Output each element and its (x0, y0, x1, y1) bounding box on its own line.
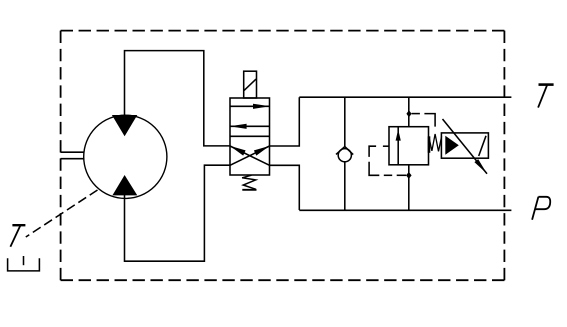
valve lower position: crossed flow path (arrow up-right) (230, 146, 270, 165)
relief valve RV1 internal flow arrow (up) (396, 127, 401, 165)
valve pilot actuator diagonal (244, 79, 256, 90)
pilot line (dashed) from upper junction to spring side (412, 114, 436, 127)
relief valve RV1 body (389, 127, 429, 165)
check valve CV1 ball (338, 149, 351, 162)
wire: T rail (299, 96, 511, 98)
drain line (dashed) from pump case to tank (26, 190, 98, 237)
check valve CV1 upper lead (344, 97, 346, 147)
valve position divider (230, 135, 270, 137)
valve return spring (242, 175, 256, 190)
junction diamond (lower) (406, 172, 412, 179)
tank inlet stub (23, 256, 25, 265)
wire: P rail (299, 209, 511, 211)
relief valve spring seat (428, 136, 431, 153)
wire: pump bottom port to valve left lower port (125, 165, 231, 261)
pump flow triangle (top, pointing in) (112, 115, 137, 136)
label P (pressure port) (532, 197, 550, 220)
solenoid triangle (445, 136, 459, 155)
solenoid internal diagonal (479, 136, 486, 156)
label T (tank port) (538, 85, 554, 108)
valve lower position: crossed flow path (arrow up-left) (230, 146, 270, 165)
pump flow triangle (bottom, pointing in) (112, 175, 137, 195)
pump drive shaft (61, 152, 85, 159)
check valve CV1 lower lead (344, 162, 346, 211)
proportional solenoid box (441, 133, 488, 158)
adjustability arrow across solenoid (443, 119, 488, 174)
enclosure dashed border (61, 31, 505, 281)
pump/motor M1 circle (84, 115, 167, 198)
wire: valve right lower port to P rail (270, 165, 300, 210)
relief valve spring (429, 134, 441, 151)
label T (drain to tank) (10, 225, 25, 247)
check valve CV1 seat (336, 147, 353, 155)
tank symbol (8, 258, 40, 271)
wire: valve right upper port to T rail (270, 97, 300, 146)
relief valve RV1 lower lead (408, 165, 410, 210)
valve upper position: flow path arrow right (230, 104, 270, 109)
relief valve RV1 upper lead (408, 97, 410, 127)
pilot line (dashed) from lower junction to valve left side (369, 146, 406, 175)
valve upper position: flow path arrow left (230, 124, 270, 129)
wire: pump top port to valve left upper port (125, 51, 231, 146)
junction diamond (upper) (406, 110, 411, 117)
directional valve V1 body (230, 98, 270, 175)
valve pilot actuator box (244, 71, 257, 98)
